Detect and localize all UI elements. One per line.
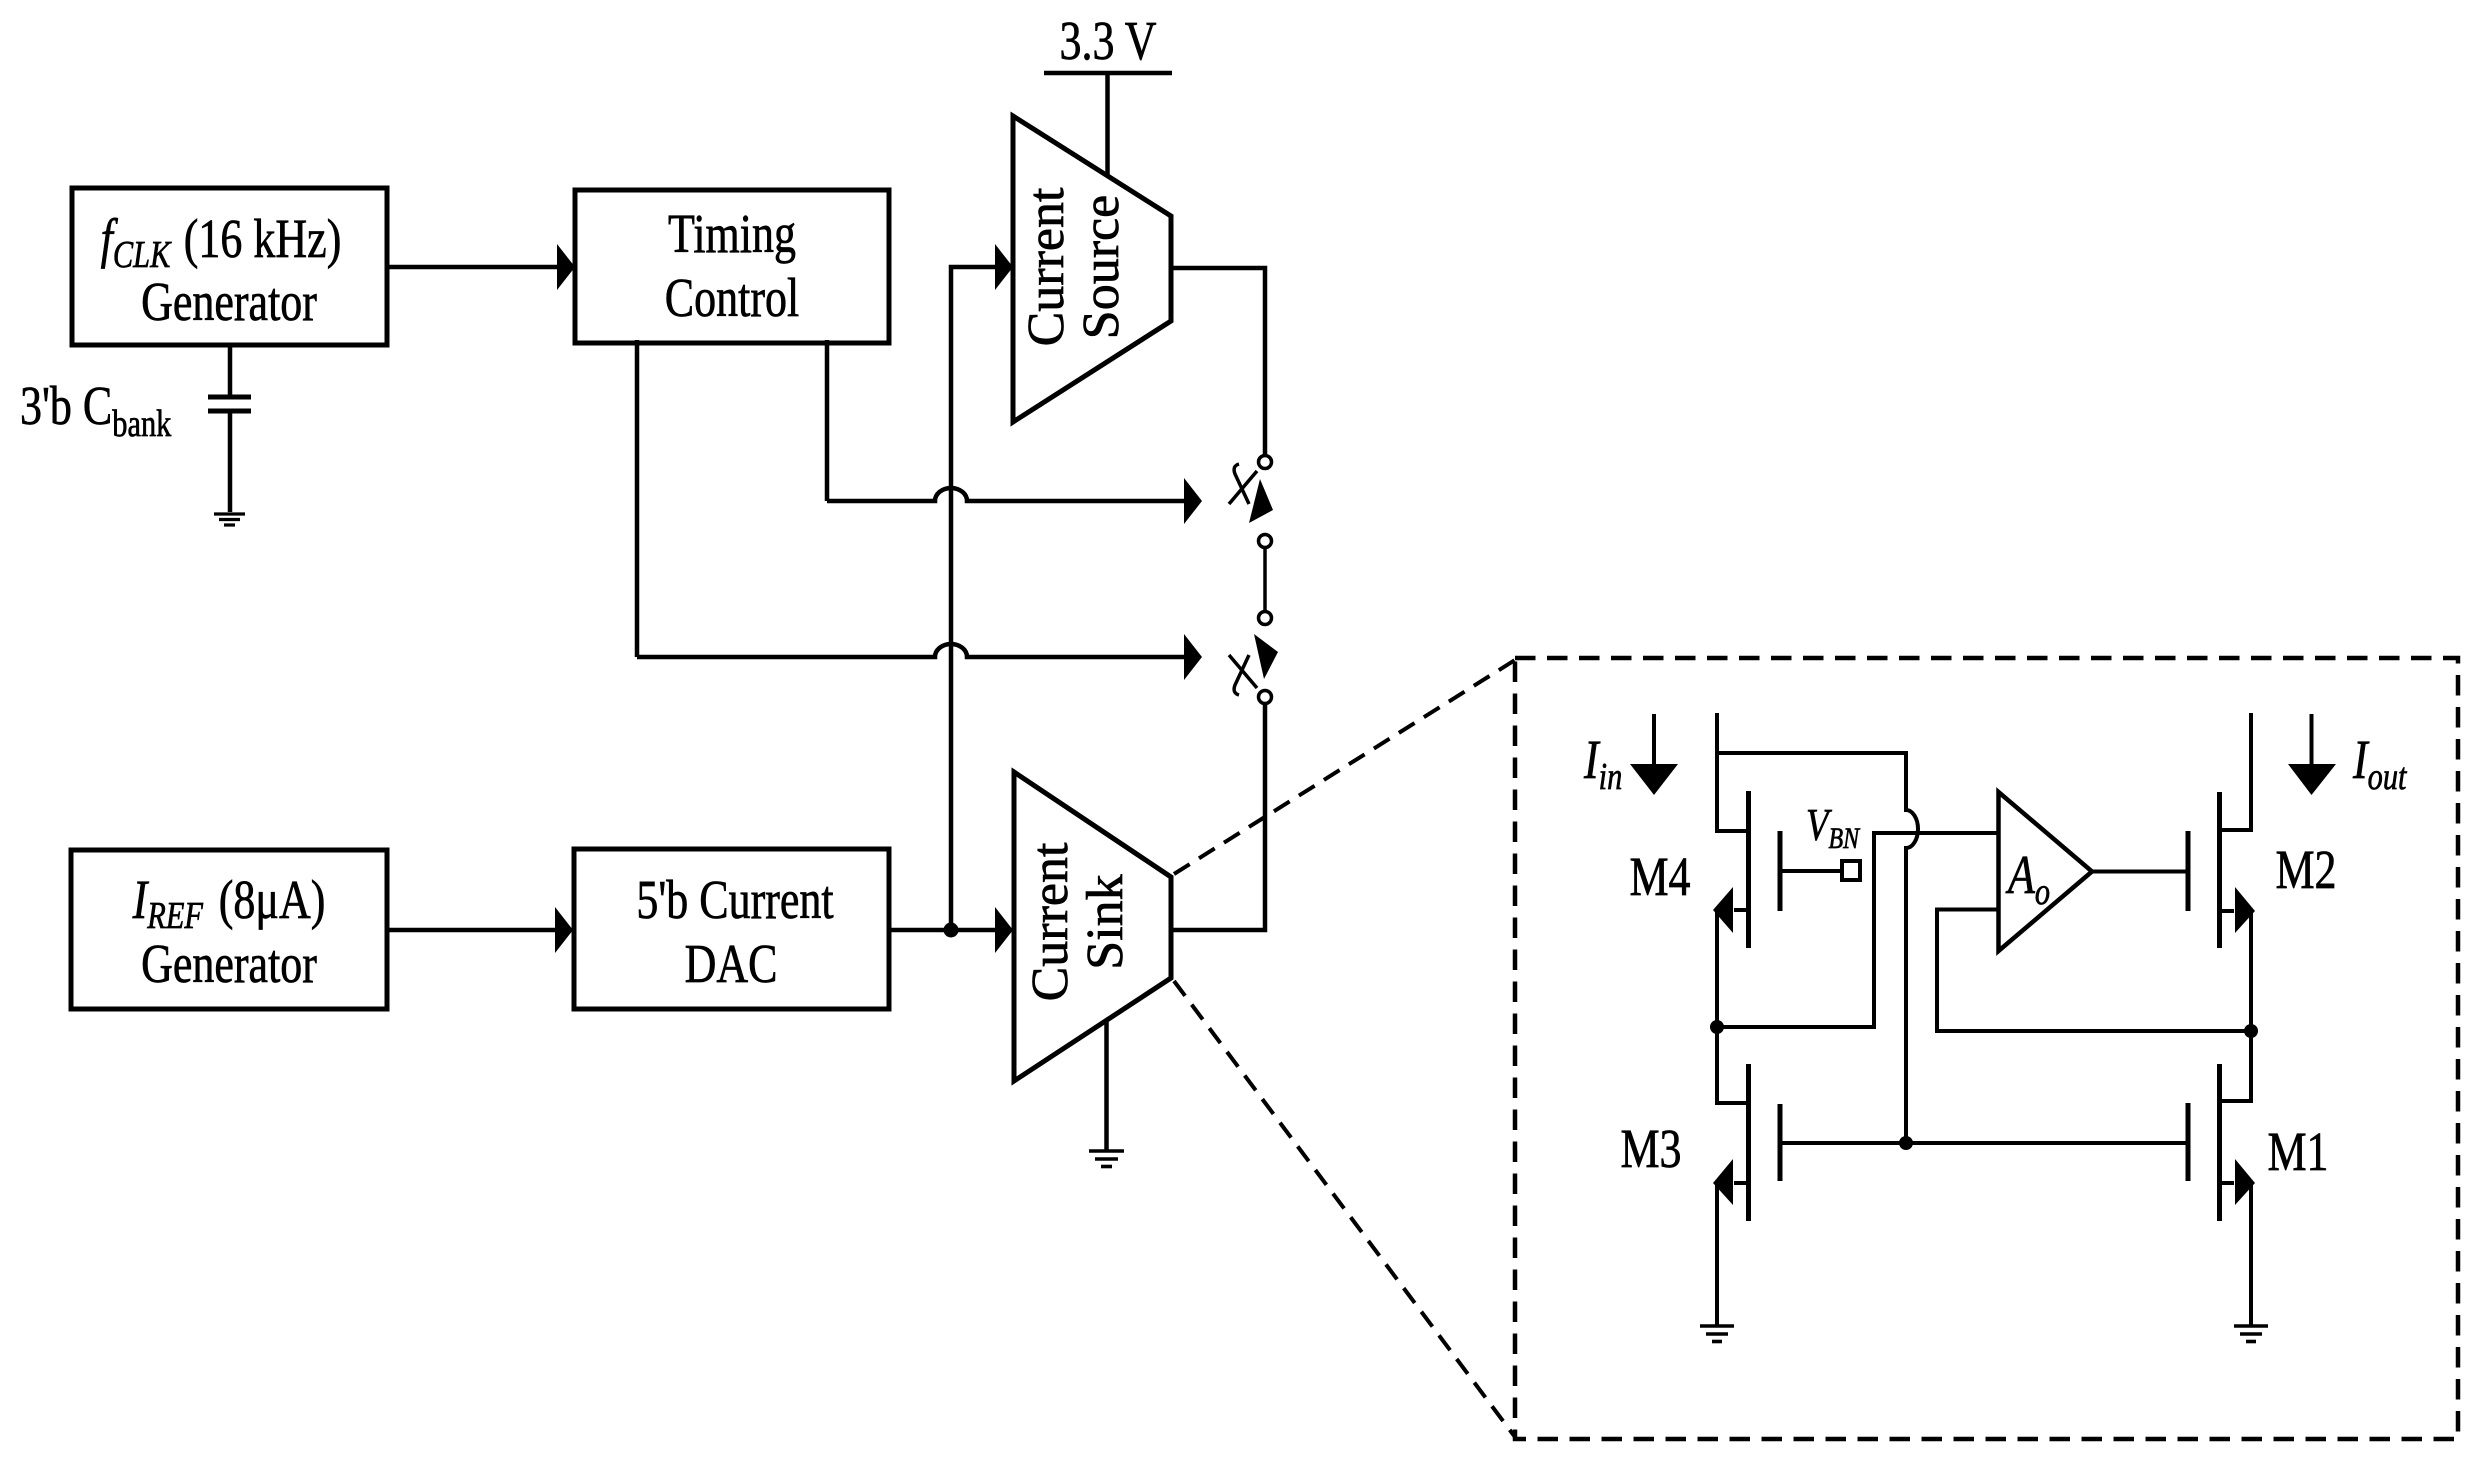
op-amp Ao — [1999, 792, 2093, 951]
ground (below M1) — [2234, 1326, 2268, 1342]
svg-text:M3: M3 — [1620, 1118, 1681, 1179]
gate row wire M3 gate to M1 gate — [1780, 1141, 2188, 1145]
svg-text:VBN: VBN — [1806, 800, 1861, 854]
wire node down to M1 drain — [2220, 1031, 2252, 1101]
svg-text:Current: Current — [1022, 842, 1079, 1001]
wire IREF to DAC — [387, 928, 556, 933]
svg-text:fCLK (16 kHz): fCLK (16 kHz) — [101, 208, 342, 275]
wire Timing Control to switch S1 (with hop) — [827, 340, 1202, 524]
wire fCLK to Timing Control — [387, 265, 558, 270]
svg-text:Current: Current — [1018, 187, 1075, 346]
label VBN — [1806, 800, 1861, 854]
wire capacitor to ground — [228, 411, 233, 512]
switch S1 — [1229, 456, 1273, 548]
svg-text:Sink: Sink — [1077, 874, 1134, 969]
node dot gate row — [1899, 1136, 1913, 1150]
wire S2 to Current Sink output — [1171, 704, 1265, 930]
block fCLK generator — [72, 188, 387, 345]
svg-text:Generator: Generator — [141, 271, 317, 332]
gate lead M4 to VBN terminal — [1780, 869, 1842, 873]
label M4 — [1629, 846, 1690, 907]
svg-text:DAC: DAC — [685, 933, 778, 994]
terminal square VBN — [1842, 861, 1860, 880]
wire Ao output to M2 gate — [2092, 870, 2188, 874]
svg-text:Control: Control — [665, 267, 799, 328]
junction dot at DAC output — [944, 923, 959, 938]
wire Current Source output to switch S1 — [1171, 268, 1265, 454]
svg-text:3.3 V: 3.3 V — [1060, 10, 1157, 71]
ground (below Cbank) — [214, 514, 245, 525]
svg-text:M2: M2 — [2275, 839, 2336, 900]
svg-text:Source: Source — [1073, 195, 1130, 339]
switch S2 — [1229, 612, 1278, 704]
label 3'b Cbank — [20, 375, 172, 444]
svg-text:Timing: Timing — [668, 203, 796, 264]
wire Current Sink to ground — [1104, 1021, 1109, 1150]
wire Timing Control to switch S2 (with hop) — [637, 340, 1202, 680]
block 5'b Current DAC — [574, 849, 889, 1009]
supply 3.3V — [1044, 10, 1172, 178]
svg-text:3'b Cbank: 3'b Cbank — [20, 375, 172, 444]
wire M3 drain from node — [1717, 1027, 1749, 1103]
block Timing Control — [575, 190, 889, 343]
current sink (trapezoid) — [1014, 772, 1171, 1081]
capacitor Cbank — [208, 397, 251, 411]
svg-text:Iout: Iout — [2352, 729, 2408, 797]
node dot M4 source / M3 drain — [1710, 1020, 1724, 1034]
svg-text:Generator: Generator — [141, 933, 317, 994]
wire DAC to Current Sink — [889, 928, 996, 933]
ground (below Current Sink) — [1089, 1151, 1124, 1167]
transistor M3 — [1713, 1064, 1780, 1325]
transistor M2 — [2188, 713, 2255, 1031]
svg-text:IREF (8μA): IREF (8μA) — [132, 869, 326, 936]
label M2 — [2275, 839, 2336, 900]
svg-text:Iin: Iin — [1583, 729, 1622, 797]
svg-text:M1: M1 — [2267, 1121, 2328, 1182]
svg-text:5'b Current: 5'b Current — [636, 869, 833, 930]
node dot M2 source / M1 drain — [2244, 1024, 2258, 1038]
svg-text:M4: M4 — [1629, 846, 1690, 907]
transistor M4 — [1713, 713, 1780, 1027]
wire Ao feedback input from M2 source node — [1937, 910, 2251, 1032]
block IREF generator — [71, 850, 387, 1009]
current source (trapezoid) — [1013, 116, 1171, 422]
label M1 — [2267, 1121, 2328, 1182]
callout dashed line lower — [1174, 981, 1515, 1437]
label Iout — [2352, 729, 2408, 797]
callout dashed line upper — [1174, 660, 1515, 874]
label Iin — [1583, 729, 1622, 797]
arrow Iout — [2288, 714, 2336, 795]
arrow Iin — [1630, 714, 1678, 795]
wire trunk junction to Current Source input — [951, 267, 996, 930]
ground (below M3) — [1700, 1326, 1734, 1342]
transistor M1 — [2188, 1064, 2255, 1325]
dashed detail box — [1515, 658, 2458, 1439]
wire M4 drain hook to gate row (with hop) — [1717, 753, 1918, 1143]
label M3 — [1620, 1118, 1681, 1179]
wire S1 to S2 — [1263, 548, 1267, 611]
wire fCLK bottom to capacitor — [228, 345, 233, 395]
wire node to Ao top input — [1717, 833, 1998, 1027]
